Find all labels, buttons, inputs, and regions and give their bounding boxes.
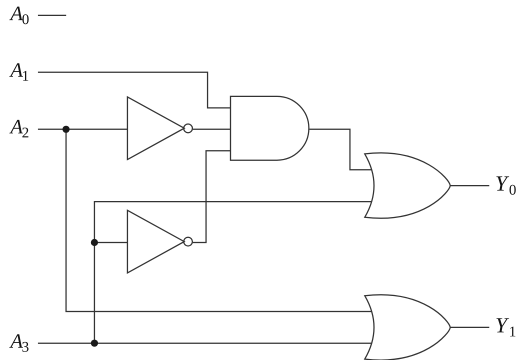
wire OR2 output to Y1 (450, 326, 489, 328)
and gate U3 (231, 96, 309, 160)
junction dot node A3 (91, 340, 98, 347)
or gate U5 (Y1) (365, 295, 451, 360)
label A0 (9, 7, 28, 25)
or gate U4 (Y0) (365, 153, 451, 218)
wire A2 to inverter U1 input (38, 128, 128, 130)
junction dot node A2 (62, 126, 69, 133)
inverter U1 (NOT A2) (127, 97, 192, 160)
wire A0 stub (38, 14, 66, 16)
wire A3 riser to OR1 bottom input (94, 202, 371, 344)
label A1 (9, 63, 28, 80)
wire inverter U2 output up to AND bottom input (193, 151, 231, 243)
wire inverter U2 input (94, 242, 127, 244)
junction dot node A3 / U2 input (91, 239, 98, 246)
label Y0 (496, 176, 515, 194)
wire A3 to OR2 bottom input (38, 342, 371, 344)
wire inverter U1 output to AND middle input (193, 128, 231, 130)
label Y1 (496, 318, 515, 336)
label A2 (9, 120, 28, 137)
wire OR1 output to Y0 (450, 185, 489, 187)
wire A2 branch down to OR2 top input (66, 129, 372, 311)
wire A1 to AND top input (38, 72, 231, 108)
label A3 (9, 334, 28, 352)
wire AND output to OR1 top input (309, 129, 371, 170)
inverter U2 (NOT A3) (127, 210, 192, 273)
